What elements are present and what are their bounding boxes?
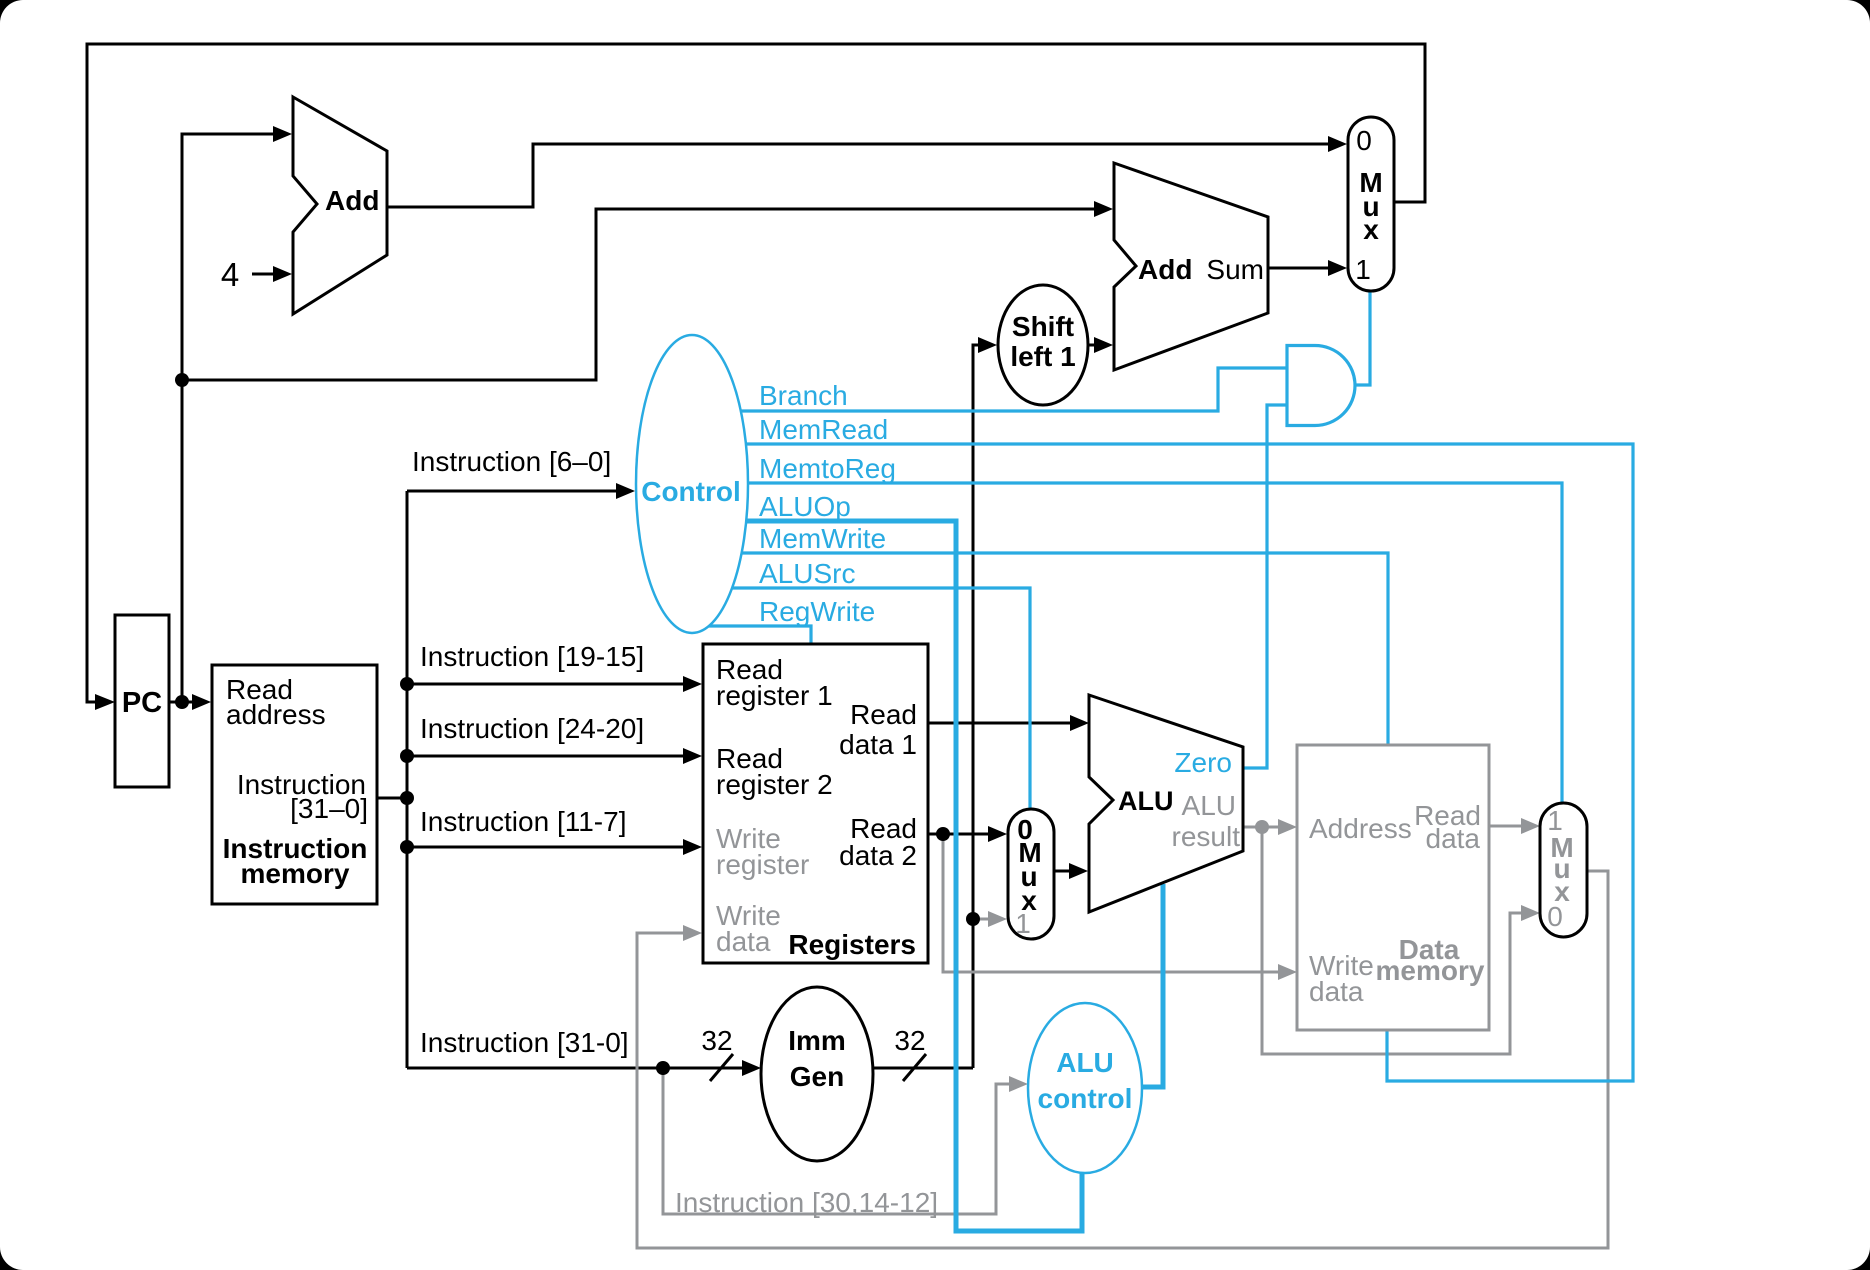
wire Sum output to Mux 1 input (1267, 260, 1347, 276)
svg-text:ALU: ALU (1182, 790, 1236, 821)
wire RegWrite signal to registers (709, 626, 811, 644)
adder Add (branch target) (1114, 163, 1268, 370)
svg-text:Sum: Sum (1206, 254, 1264, 285)
wire PC value to branch adder input (182, 201, 1113, 380)
svg-text:1: 1 (1015, 908, 1031, 939)
svg-text:Gen: Gen (790, 1061, 844, 1092)
svg-text:data: data (716, 926, 771, 957)
wire ALU control output to ALU (thick) (1143, 884, 1163, 1087)
PC register box (115, 615, 169, 787)
svg-text:0: 0 (1547, 901, 1563, 932)
svg-text:data 1: data 1 (839, 729, 917, 760)
svg-text:ALU: ALU (1056, 1047, 1114, 1078)
svg-text:Address: Address (1309, 813, 1412, 844)
wire MemWrite signal to data memory (742, 553, 1388, 745)
adder Add (PC+4) (293, 97, 387, 314)
svg-text:Imm: Imm (788, 1025, 846, 1056)
svg-text:Zero: Zero (1174, 747, 1232, 778)
wire immediate tap to Mux 1 input (gray) (973, 911, 1007, 927)
wire data memory read data to Mux 1 input (gray) (1489, 818, 1540, 834)
svg-text:ALU: ALU (1118, 786, 1174, 816)
wire Branch signal to AND gate (741, 368, 1287, 411)
svg-text:Shift: Shift (1012, 311, 1074, 342)
wire ALUOp signal to ALU control (thick) (746, 521, 1082, 1231)
svg-text:MemtoReg: MemtoReg (759, 453, 896, 484)
shift left 1 ellipse (998, 285, 1088, 405)
mux M1 (PC source) (1348, 117, 1394, 291)
wire Read data 1 to ALU (928, 715, 1089, 731)
wire Instruction [30,14-12] to ALU control (gray) (663, 1068, 1028, 1214)
svg-text:Instruction [31-0]: Instruction [31-0] (420, 1027, 629, 1058)
svg-text:Instruction [30,14-12]: Instruction [30,14-12] (675, 1187, 938, 1218)
wire AND gate output to Mux select (1355, 291, 1370, 385)
svg-text:32: 32 (894, 1025, 925, 1056)
junction dot on PC value wire (175, 373, 189, 387)
junction dot for Instruction [30,14-12] tap (656, 1061, 670, 1075)
wire PC to instruction memory read address (169, 694, 211, 710)
svg-text:ALUOp: ALUOp (759, 491, 851, 522)
junction dot (400, 840, 414, 854)
wire Add (PC+4) output to Mux 0 input (387, 136, 1347, 207)
control unit ellipse (636, 335, 748, 633)
svg-text:ALUSrc: ALUSrc (759, 558, 855, 589)
junction dot on ALU result (gray) (1255, 820, 1269, 834)
data memory box (1297, 745, 1489, 1030)
svg-text:32: 32 (701, 1025, 732, 1056)
svg-text:Instruction [19-15]: Instruction [19-15] (420, 641, 644, 672)
wire PC feedback: Mux output to PC input (87, 44, 1425, 710)
svg-text:PC: PC (122, 687, 162, 719)
svg-text:4: 4 (221, 256, 239, 293)
svg-text:data 2: data 2 (839, 840, 917, 871)
svg-text:Registers: Registers (788, 929, 916, 960)
mux M3 (MemtoReg write-back) (1540, 803, 1587, 937)
svg-text:Add: Add (325, 185, 379, 216)
wire ALU result to data memory address (gray) (1243, 819, 1297, 835)
svg-text:register 1: register 1 (716, 680, 833, 711)
svg-text:Read: Read (850, 699, 917, 730)
svg-text:memory: memory (1376, 955, 1485, 986)
ALU control ellipse (1028, 1003, 1142, 1173)
svg-text:register: register (716, 849, 809, 880)
wire constant 4 to Add (252, 266, 292, 282)
svg-text:result: result (1172, 821, 1241, 852)
wire instruction bus vertical (406, 491, 409, 1068)
svg-text:data: data (1309, 976, 1364, 1007)
wire Instruction [19-15] to read register 1 (407, 676, 702, 692)
svg-text:data: data (1426, 823, 1481, 854)
junction dot on Imm Gen output vertical (966, 912, 980, 926)
wire Instruction [31-0] to Imm Gen (407, 1060, 761, 1076)
wire Instruction [6-0] to Control (407, 483, 635, 499)
junction dot at PC output (175, 695, 189, 709)
registers box (703, 644, 928, 963)
wire PC value up to Add (PC+4) input (182, 126, 292, 702)
wire ALUSrc mux output to ALU (1054, 863, 1088, 879)
svg-text:control: control (1038, 1083, 1133, 1114)
wire write-back mux output to registers write data (gray) (637, 871, 1608, 1248)
svg-text:left 1: left 1 (1010, 341, 1075, 372)
wire Read data 2 to data memory write data (gray) (943, 834, 1297, 980)
wire MemRead signal to data memory (746, 444, 1633, 1081)
junction dot (400, 749, 414, 763)
svg-text:address: address (226, 699, 326, 730)
ALU (1089, 695, 1243, 912)
svg-text:memory: memory (241, 858, 350, 889)
wire ALUSrc signal to mux (732, 588, 1030, 809)
instruction memory box (212, 665, 377, 904)
svg-text:Instruction [24-20]: Instruction [24-20] (420, 713, 644, 744)
svg-text:Instruction [6–0]: Instruction [6–0] (412, 446, 611, 477)
wire Imm Gen output to shift left 1 (873, 337, 997, 1068)
junction dot instruction bus at output (400, 791, 414, 805)
svg-text:[31–0]: [31–0] (290, 793, 368, 824)
svg-text:RegWrite: RegWrite (759, 596, 875, 627)
wire Instruction [24-20] to read register 2 (407, 748, 702, 764)
wire Zero flag to AND gate (1243, 405, 1287, 768)
mux M2 (ALUSrc) (1008, 809, 1054, 939)
wire ALU result bypass to Mux 0 input (gray) (1262, 827, 1540, 1054)
label 32 bus width left (701, 1025, 733, 1081)
wire Read data 2 to Mux 0 input (928, 826, 1007, 842)
wire Instruction [11-7] to write register (407, 839, 702, 855)
svg-text:Instruction [11-7]: Instruction [11-7] (420, 806, 626, 837)
wire instruction memory output to instruction bus (377, 797, 407, 800)
AND gate (1287, 346, 1355, 426)
wire MemtoReg signal to write-back mux (748, 483, 1562, 803)
wire shift left 1 output to branch adder (1088, 337, 1113, 353)
svg-text:Control: Control (641, 476, 741, 507)
junction dot (400, 677, 414, 691)
svg-text:1: 1 (1355, 254, 1371, 285)
svg-text:Add: Add (1138, 254, 1192, 285)
svg-text:x: x (1363, 214, 1379, 245)
svg-text:MemRead: MemRead (759, 414, 888, 445)
svg-text:register 2: register 2 (716, 769, 833, 800)
junction dot on Read data 2 (936, 827, 950, 841)
svg-text:0: 0 (1356, 125, 1372, 156)
label 32 bus width right (894, 1025, 926, 1081)
svg-text:MemWrite: MemWrite (759, 523, 886, 554)
Imm Gen ellipse (761, 987, 873, 1161)
svg-text:Branch: Branch (759, 380, 848, 411)
